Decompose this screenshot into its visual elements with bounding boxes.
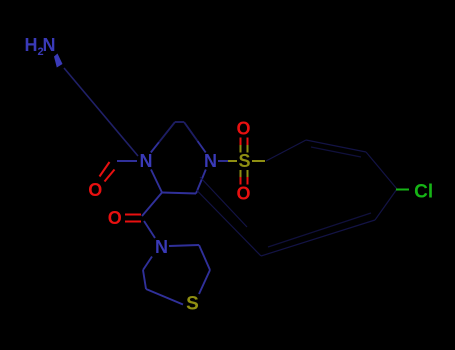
svg-text:O: O	[236, 119, 250, 139]
svg-text:S: S	[186, 293, 199, 314]
svg-text:N: N	[43, 35, 56, 55]
svg-text:S: S	[238, 151, 250, 171]
svg-text:N: N	[204, 151, 217, 171]
svg-text:Cl: Cl	[414, 182, 433, 203]
svg-text:O: O	[236, 184, 250, 204]
svg-text:H: H	[25, 35, 38, 55]
svg-text:N: N	[155, 237, 168, 257]
svg-text:O: O	[108, 208, 122, 228]
svg-text:O: O	[88, 180, 102, 200]
svg-text:N: N	[140, 151, 153, 171]
